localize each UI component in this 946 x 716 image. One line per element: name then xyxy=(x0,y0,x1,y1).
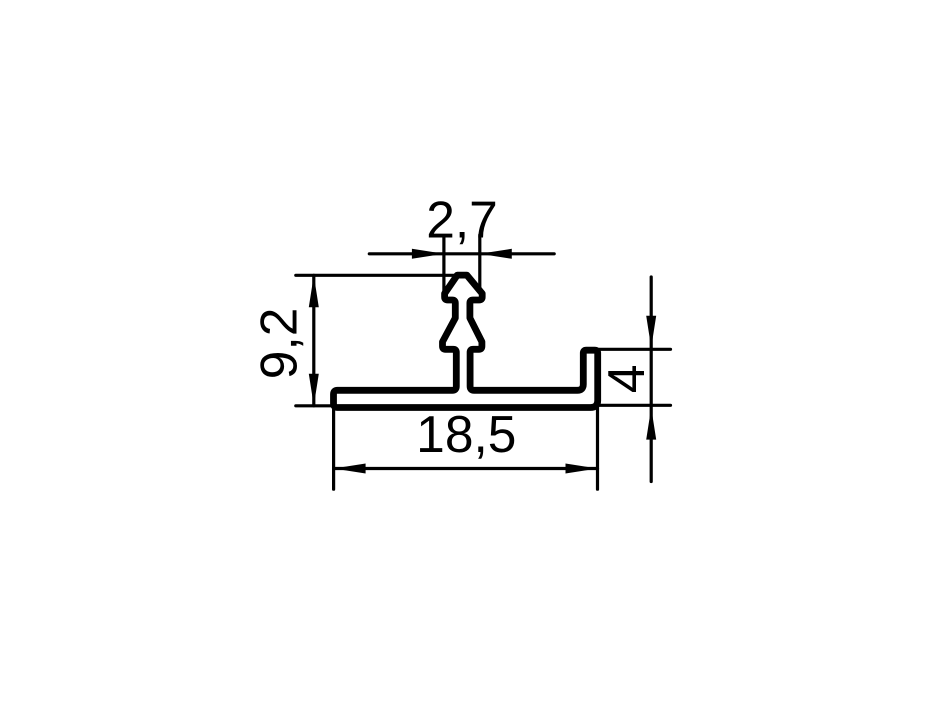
svg-text:2,7: 2,7 xyxy=(426,191,498,249)
svg-text:18,5: 18,5 xyxy=(416,405,516,463)
svg-text:9,2: 9,2 xyxy=(250,308,308,380)
svg-text:4: 4 xyxy=(597,364,655,393)
